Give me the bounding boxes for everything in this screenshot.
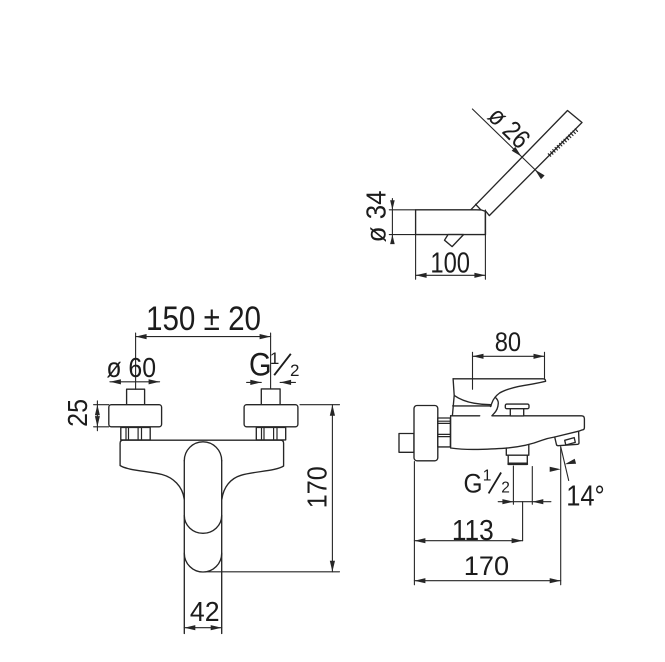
capsule side lines (continue as 42 extension lines)	[183, 461, 185, 634]
svg-text:170: 170	[302, 466, 333, 508]
wall pipe stub	[399, 434, 414, 453]
svg-text:1: 1	[270, 349, 279, 368]
spout capsule bottom arc	[184, 553, 221, 572]
svg-text:ø 26: ø 26	[482, 101, 536, 155]
svg-text:2: 2	[290, 361, 299, 380]
right union: hex nut	[256, 427, 285, 440]
shower outlet bottom lip	[508, 463, 527, 465]
svg-text:150 ± 20: 150 ± 20	[146, 300, 261, 338]
Ø34 extension line bottom	[389, 234, 415, 236]
holder hook diamond	[445, 235, 464, 247]
dimension 170 (front): extension lines	[208, 405, 340, 572]
lever underside curve	[491, 381, 546, 406]
dimension 80: extension lines	[473, 352, 545, 389]
dimension line 100	[416, 274, 486, 276]
collar line under lever	[453, 405, 492, 407]
svg-text:100: 100	[430, 247, 470, 279]
arrowhead Ø26 lower	[535, 170, 545, 180]
svg-text:G: G	[464, 468, 483, 498]
dimension G1/2 (front) line	[247, 381, 296, 383]
svg-text:170: 170	[464, 551, 509, 581]
svg-text:ø 60: ø 60	[106, 352, 156, 383]
svg-text:25: 25	[62, 399, 93, 427]
holder bracket rect	[416, 210, 486, 235]
dimension 42 line	[184, 627, 221, 629]
body top + right edge	[451, 416, 585, 431]
lever tip arc (plan)	[184, 516, 221, 534]
dimension 100: extension lines	[416, 235, 486, 280]
arrowhead 150 left	[136, 334, 147, 339]
diverter knob top	[505, 404, 529, 409]
arrowhead Ø26 upper	[512, 147, 522, 157]
dimension 170 (side) line	[414, 580, 560, 582]
dimension 25: extension lines	[94, 401, 109, 431]
svg-text:1: 1	[483, 467, 492, 484]
lever handle top edge + tip (side)	[453, 379, 545, 382]
aerator opening	[565, 438, 576, 445]
left union: G1/2 stub	[127, 389, 145, 405]
14 degree slanted line	[561, 448, 569, 481]
dimension Ø60 line	[110, 381, 160, 383]
arrowhead 100 left	[416, 273, 427, 278]
dimension 113 line	[414, 540, 522, 542]
hex nut (side)	[438, 418, 451, 447]
arrowhead Ø34 bottom	[390, 235, 395, 245]
spout/lever capsule top arc	[184, 442, 221, 461]
aerator housing (tilted)	[555, 431, 579, 446]
arrowhead Ø34 top	[390, 200, 395, 210]
handle end-cap edge	[476, 204, 481, 210]
mixer body (plan)	[120, 440, 284, 499]
right union: G1/2 stub	[261, 389, 280, 405]
shower outlet nut	[508, 455, 527, 463]
dimension G1/2 (side): extension lines	[498, 466, 551, 504]
Ø34 extension line top	[389, 209, 415, 211]
arrowhead 100 right	[474, 273, 485, 278]
shower outlet upper	[506, 445, 529, 455]
dimension line Ø34 vertical	[389, 199, 415, 244]
left extension (wall plane)	[413, 462, 415, 585]
wall flange	[414, 406, 438, 461]
handle grip serration ticks	[548, 129, 577, 156]
arrowhead at vertical line	[550, 467, 561, 472]
diverter knob stem	[510, 409, 523, 416]
hand shower handle (diagonal bar)	[471, 111, 582, 216]
holder right edge redraw	[484, 210, 486, 234]
right union: flange	[244, 405, 298, 427]
svg-text:G: G	[249, 347, 272, 383]
svg-text:14°: 14°	[566, 481, 605, 513]
outlet axis line down to 113 dim	[522, 502, 524, 541]
right vertical reference (spout outlet axis)	[560, 447, 562, 585]
arrowhead at slanted line	[565, 459, 576, 465]
left union: hex nut	[121, 427, 150, 440]
svg-text:113: 113	[452, 515, 494, 547]
dimension 150±20: extension/axis lines	[136, 333, 271, 389]
dimension line Ø26 across handle	[472, 109, 540, 175]
left union: flange Ø60	[109, 405, 162, 427]
svg-text:ø 34: ø 34	[360, 190, 391, 242]
svg-text:42: 42	[190, 596, 220, 627]
lever back edge	[452, 379, 454, 416]
svg-text:2: 2	[501, 479, 510, 496]
cartridge dome bulge	[492, 397, 498, 416]
arrowhead 150 right	[260, 334, 271, 339]
body left + bottom edge (spout underside)	[451, 416, 555, 450]
lever lower-left curve	[454, 395, 491, 404]
svg-text:80: 80	[495, 327, 521, 357]
